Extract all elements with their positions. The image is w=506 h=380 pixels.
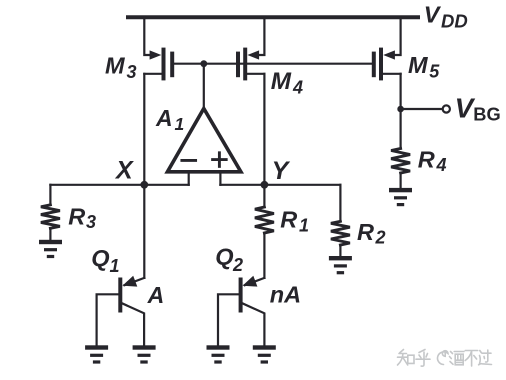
transistor Q1 base bar [118, 278, 122, 313]
svg-text:4: 4 [436, 155, 447, 175]
transistor Q2 base lead to ground [218, 294, 239, 345]
watermark 知乎 @酒不过 [398, 350, 492, 367]
wire R2 to ground [339, 245, 341, 256]
transistor M4 [236, 48, 264, 81]
ground below Q1 base [85, 345, 108, 363]
svg-text:A: A [155, 105, 173, 131]
wire minus input stub [188, 172, 190, 185]
wire M3 source to VDD [144, 17, 153, 55]
svg-text:R: R [280, 207, 297, 233]
wire node Y to R2 [339, 185, 341, 222]
wire R3 to ground [49, 228, 51, 240]
ground below R4 [389, 188, 412, 206]
wire M5 source to VDD [392, 17, 401, 55]
svg-text:Q: Q [91, 245, 109, 271]
svg-text:R: R [357, 219, 374, 245]
svg-text:Q: Q [215, 244, 233, 270]
transistor Q1 collector to ground [122, 303, 144, 345]
svg-text:2: 2 [375, 228, 386, 248]
wire M4 drain down to node Y [263, 74, 265, 207]
wire VBG node down to R4 [400, 109, 402, 149]
svg-text:4: 4 [292, 78, 303, 98]
terminal VBG open circle [443, 105, 450, 112]
VDD rail [128, 15, 418, 19]
transistor M3 [144, 48, 174, 81]
transistor M5 [372, 48, 401, 81]
svg-text:1: 1 [299, 216, 309, 236]
wire M3 drain down to node X and Q1 emitter [143, 74, 145, 278]
transistor Q1 base lead to ground [97, 294, 119, 345]
svg-text:3: 3 [127, 62, 137, 82]
wire M5 drain down to VBG node [400, 74, 402, 109]
op-amp plus sign [213, 153, 227, 167]
resistor R3 [41, 205, 60, 229]
node Y junction dot [261, 181, 269, 189]
svg-text:M: M [408, 52, 428, 78]
ground below Q2 collector [253, 345, 276, 363]
label Q2 [215, 244, 243, 276]
ground below Q2 base [207, 345, 230, 363]
svg-text:R: R [68, 203, 85, 229]
svg-text:nA: nA [270, 281, 301, 307]
wire gate line M3-M4-M5 [173, 63, 374, 65]
op-amp minus sign [182, 159, 196, 162]
transistor Q1 emitter with arrow [122, 276, 144, 287]
node gate junction dot [200, 60, 207, 67]
svg-text:1: 1 [110, 256, 120, 276]
label R3 [68, 203, 96, 232]
label Q1 [91, 245, 119, 276]
wire R1 to Q2 emitter [263, 233, 265, 278]
label M3 [105, 52, 137, 82]
node Y wire [220, 184, 340, 186]
ground below Q1 collector [133, 345, 156, 363]
svg-text:2: 2 [232, 255, 243, 275]
resistor R2 [331, 221, 350, 245]
svg-text:5: 5 [429, 62, 440, 82]
resistor R1 [255, 207, 274, 233]
svg-text:V: V [424, 1, 442, 27]
wire M4 source to VDD [256, 17, 264, 55]
svg-text:M: M [271, 68, 292, 95]
svg-text:X: X [114, 157, 134, 185]
label M5 [408, 52, 440, 82]
svg-text:3: 3 [86, 212, 96, 232]
wire VBG node to terminal [401, 108, 443, 110]
svg-text:Y: Y [272, 157, 291, 185]
op-amp A1 [167, 109, 241, 172]
label R4 [418, 146, 447, 175]
transistor Q2 emitter with arrow [243, 276, 265, 287]
node VBG junction dot [397, 106, 404, 113]
label VBG [455, 92, 501, 124]
wire R4 to ground [400, 173, 402, 188]
ground below R2 [329, 256, 352, 274]
wire A1 output to gate line [203, 64, 205, 110]
svg-text:M: M [105, 52, 125, 78]
label A1 [155, 105, 184, 134]
svg-text:BG: BG [473, 104, 500, 125]
transistor Q2 collector to ground [243, 303, 265, 345]
svg-text:DD: DD [441, 11, 468, 32]
node X junction dot [140, 181, 148, 189]
node X wire [50, 184, 188, 186]
label R1 [280, 207, 309, 236]
wire plus input stub [219, 172, 221, 185]
svg-text:1: 1 [175, 114, 185, 134]
svg-text:A: A [147, 282, 165, 308]
label M4 [271, 68, 303, 98]
label R2 [357, 219, 386, 248]
transistor Q2 base bar [239, 278, 243, 313]
ground below R3 [39, 240, 62, 258]
label VDD [424, 1, 468, 31]
resistor R4 [391, 149, 410, 174]
svg-text:R: R [418, 146, 435, 172]
wire node X down to R3 [49, 185, 51, 205]
